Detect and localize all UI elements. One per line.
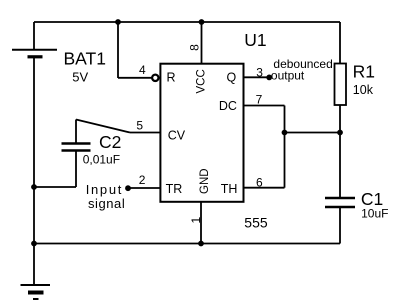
svg-text:BAT1: BAT1 [64,49,106,69]
svg-text:U1: U1 [244,30,266,50]
pin 4 bubble [152,75,158,81]
svg-text:3: 3 [256,65,263,79]
wire pin7-pin6 vertical [284,106,286,188]
battery BAT1 [12,50,57,57]
svg-text:Input: Input [86,182,123,197]
wire pin2 TR input [128,187,161,189]
wire C2 bottom lead [75,152,77,188]
capacitor C2 [62,144,91,151]
svg-text:7: 7 [256,92,263,106]
svg-text:output: output [271,68,305,82]
wire pin4 branch vertical [117,22,119,78]
wire left rail lower (battery to ground) [33,58,35,285]
svg-text:C2: C2 [99,132,121,152]
svg-text:0,01uF: 0,01uF [83,153,120,167]
svg-text:4: 4 [139,63,146,77]
svg-text:R: R [167,71,176,85]
wire pin1 GND [200,202,202,244]
capacitor C1 [325,198,355,207]
svg-text:Q: Q [227,71,237,85]
wire C1 to bottom rail [339,207,341,244]
svg-text:1: 1 [189,217,203,224]
IC U1 555 body [160,64,243,202]
svg-text:555: 555 [244,215,268,231]
node junction pins 6-7 [282,130,288,136]
wire pin5 CV horizontal [130,132,160,134]
wire pin4 branch horizontal [118,77,152,79]
node junction top-left [115,19,121,25]
wire pin5 diagonal to C2 [76,120,130,133]
svg-text:5V: 5V [72,70,88,85]
node junction bottom-left [31,241,37,247]
node output terminal [266,75,272,81]
svg-text:DC: DC [219,99,237,113]
wire left rail upper (battery top lead) [33,22,35,50]
svg-text:R1: R1 [353,62,375,82]
node junction top-middle [199,19,205,25]
wire bottom rail [34,243,340,245]
node junction pin1 bottom [198,241,204,247]
svg-text:VCC: VCC [195,69,207,93]
wire pin3 Q output [244,76,270,78]
ground [21,285,51,299]
svg-text:5: 5 [136,119,143,133]
svg-text:2: 2 [139,173,146,187]
wire R1 to C1 [339,105,341,197]
svg-text:8: 8 [188,44,202,51]
svg-text:signal: signal [88,196,125,211]
svg-text:10k: 10k [353,83,374,97]
wire C2 to left rail [34,186,76,188]
wire right rail upper (to R1) [339,22,341,64]
node junction C2 left rail [31,184,37,190]
wire top rail [34,21,340,23]
wire C2 top lead [75,120,77,143]
resistor R1 [335,64,347,106]
node junction R1-C1 [337,130,343,136]
svg-text:TR: TR [166,182,183,196]
svg-text:TH: TH [221,182,238,196]
svg-text:CV: CV [168,129,186,143]
svg-text:10uF: 10uF [361,207,388,221]
svg-text:6: 6 [256,175,263,189]
wire node to R1/C1 junction [285,132,341,134]
svg-text:GND: GND [199,168,211,194]
node input terminal [125,185,131,191]
wire pin6 TH [244,187,285,189]
wire pin7 DC [244,105,285,107]
wire pin8 VCC [201,22,203,64]
